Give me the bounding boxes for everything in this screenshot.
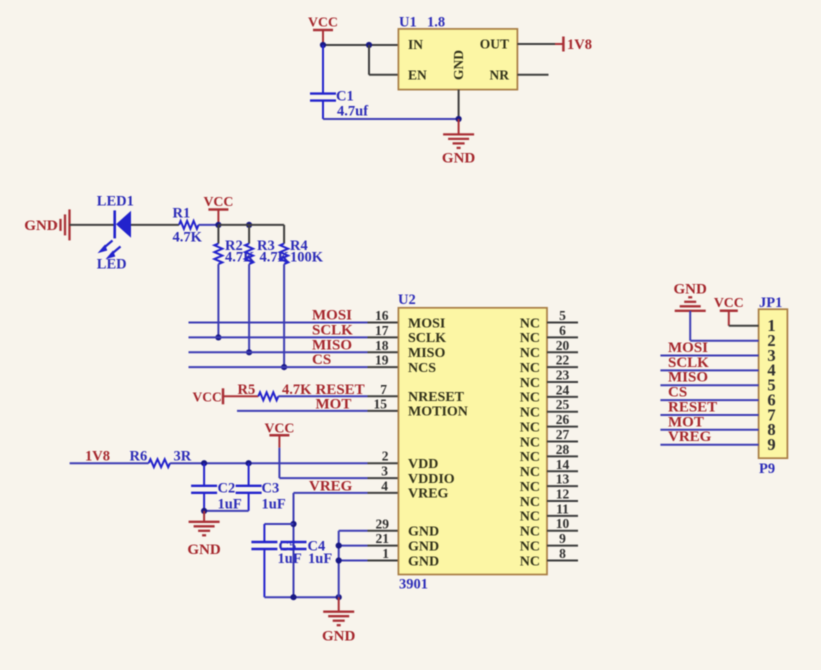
- wire net MISO: [189, 351, 368, 353]
- node junction pin21: [336, 543, 342, 549]
- svg-text:13: 13: [556, 472, 570, 487]
- power symbol VCC (top): [308, 15, 338, 46]
- svg-text:MOSI: MOSI: [312, 308, 352, 324]
- capacitor C4: [281, 539, 333, 568]
- power symbol VCC (JP1): [714, 295, 744, 326]
- svg-text:1uF: 1uF: [278, 551, 302, 567]
- svg-text:C2: C2: [218, 481, 236, 497]
- connector JP1 box: [759, 295, 788, 477]
- pin number 1: [382, 546, 389, 561]
- svg-text:JP1: JP1: [759, 295, 782, 311]
- svg-text:17: 17: [375, 323, 389, 338]
- pin number 3: [381, 464, 388, 479]
- svg-text:MOT: MOT: [668, 414, 704, 430]
- wire 1V8 to R6: [70, 462, 149, 464]
- resistor R6: [130, 448, 192, 467]
- wire GND pin 29: [339, 530, 368, 532]
- wire C3 to C2 bottom: [204, 510, 249, 512]
- node junction R4/CS: [281, 364, 287, 370]
- svg-text:R1: R1: [173, 206, 191, 222]
- wire R3 to MISO: [248, 264, 250, 352]
- svg-text:RESET: RESET: [668, 400, 717, 416]
- pin 21 stub: [368, 545, 399, 547]
- svg-text:MISO: MISO: [408, 346, 445, 361]
- right NC pin stubs: [547, 323, 578, 561]
- capacitor C2: [191, 463, 242, 512]
- resistor R4: [280, 225, 324, 266]
- node junction IN/EN branch: [366, 42, 372, 48]
- ground symbol (JP1, inverted): [674, 282, 708, 311]
- svg-text:1uF: 1uF: [308, 551, 332, 567]
- IC U2 3901: [398, 292, 547, 593]
- svg-text:26: 26: [556, 412, 570, 427]
- node junction C2: [201, 460, 207, 466]
- svg-text:NC: NC: [520, 450, 540, 465]
- port 1V8 (top): [563, 37, 592, 53]
- svg-text:28: 28: [556, 442, 570, 457]
- svg-text:VCC: VCC: [264, 421, 294, 436]
- svg-text:VCC: VCC: [714, 295, 744, 310]
- svg-text:11: 11: [556, 501, 569, 516]
- svg-text:2: 2: [382, 449, 389, 464]
- svg-text:NCS: NCS: [408, 361, 436, 376]
- capacitor C5: [251, 539, 301, 598]
- pin number 15: [374, 397, 388, 412]
- wire net MOT: [237, 410, 368, 412]
- net label JP1 VREG: [668, 429, 712, 445]
- wire GND column: [338, 531, 340, 597]
- svg-text:LED: LED: [97, 256, 127, 272]
- node junction pin1: [336, 557, 342, 563]
- wire JP1 net RESET: [660, 414, 758, 416]
- wire net SCLK: [189, 336, 368, 338]
- node junction R2 top: [215, 222, 221, 228]
- net label JP1 RESET: [668, 400, 717, 416]
- node junction R3 top: [246, 222, 252, 228]
- svg-text:21: 21: [376, 531, 390, 546]
- wire JP1 net SCLK: [660, 369, 758, 371]
- wire GND to JP1 pin2: [690, 311, 758, 341]
- svg-text:NC: NC: [520, 331, 540, 346]
- resistor R2: [214, 225, 255, 266]
- svg-text:VCC: VCC: [203, 194, 233, 209]
- svg-text:GND: GND: [442, 151, 476, 167]
- svg-text:C1: C1: [336, 89, 354, 105]
- node junction R3/MISO: [246, 349, 252, 355]
- pin 19 stub: [368, 366, 399, 368]
- svg-text:MOSI: MOSI: [408, 316, 445, 331]
- node junction gnd rail: [336, 594, 342, 600]
- pin number 17: [375, 323, 389, 338]
- resistor R3: [245, 225, 290, 266]
- svg-text:1uF: 1uF: [262, 497, 286, 513]
- wire GND pin 1: [339, 560, 368, 562]
- node junction C4 bottom: [290, 594, 296, 600]
- svg-text:OUT: OUT: [480, 37, 509, 52]
- svg-text:NR: NR: [490, 68, 510, 83]
- net label MOT: [316, 397, 352, 413]
- svg-text:GND: GND: [451, 50, 466, 80]
- pin 15 stub: [368, 410, 399, 412]
- svg-text:CS: CS: [668, 385, 687, 401]
- wire pull-up rail: [218, 224, 284, 226]
- svg-text:SCLK: SCLK: [312, 322, 353, 338]
- svg-text:7: 7: [380, 382, 387, 397]
- svg-text:U2: U2: [398, 292, 416, 308]
- svg-text:NC: NC: [520, 406, 540, 421]
- port VCC (R5): [193, 388, 224, 404]
- pin number 7: [380, 382, 387, 397]
- node junction C2 gnd: [201, 508, 207, 514]
- ground symbol (U2): [322, 597, 356, 644]
- svg-text:VCC: VCC: [193, 390, 222, 405]
- net label JP1 SCLK: [668, 355, 709, 371]
- svg-text:NC: NC: [520, 510, 540, 525]
- svg-text:4: 4: [381, 478, 388, 493]
- svg-text:SCLK: SCLK: [408, 331, 446, 346]
- wire VREG pin: [294, 493, 368, 597]
- wire R2 to SCLK: [217, 264, 219, 337]
- wire VCC to R5: [223, 395, 258, 397]
- ground symbol (C2): [187, 511, 221, 558]
- wire LED to R1: [131, 224, 179, 226]
- svg-text:NC: NC: [520, 420, 540, 435]
- pin 16 stub: [368, 322, 399, 324]
- svg-text:C3: C3: [262, 481, 280, 497]
- node junction R2/SCLK: [215, 334, 221, 340]
- svg-text:NC: NC: [520, 391, 540, 406]
- power symbol VCC (pull-ups): [203, 194, 233, 225]
- wire R4 to CS: [283, 264, 285, 367]
- pin number 18: [375, 338, 389, 353]
- resistor R5: [238, 382, 313, 400]
- pin 29 stub: [368, 530, 399, 532]
- pin 1 stub: [368, 560, 399, 562]
- wire U1 GND pin: [458, 90, 460, 119]
- svg-text:VREG: VREG: [408, 487, 449, 502]
- svg-text:R5: R5: [238, 382, 256, 398]
- svg-text:GND: GND: [674, 282, 708, 298]
- svg-text:NC: NC: [520, 376, 540, 391]
- svg-text:GND: GND: [322, 629, 356, 645]
- svg-text:1V8: 1V8: [85, 448, 110, 464]
- wire U1 NR stub: [517, 74, 548, 76]
- svg-text:1: 1: [382, 546, 389, 561]
- svg-text:NC: NC: [520, 495, 540, 510]
- op-amp U1 regulator box: [398, 15, 517, 90]
- svg-text:15: 15: [374, 397, 388, 412]
- svg-text:IN: IN: [408, 37, 423, 52]
- svg-text:27: 27: [556, 427, 570, 442]
- pin number 2: [382, 449, 389, 464]
- svg-text:3901: 3901: [399, 577, 428, 593]
- svg-text:MISO: MISO: [668, 370, 708, 386]
- wire VCC to U1 IN: [323, 44, 398, 46]
- svg-text:19: 19: [375, 353, 389, 368]
- svg-text:29: 29: [376, 516, 390, 531]
- svg-text:MISO: MISO: [312, 337, 352, 353]
- svg-text:14: 14: [556, 457, 570, 472]
- pin 4 stub: [368, 492, 399, 494]
- right pin numbers: [556, 308, 570, 561]
- svg-text:1V8: 1V8: [567, 37, 592, 53]
- svg-text:9: 9: [559, 531, 566, 546]
- svg-text:CS: CS: [312, 352, 331, 368]
- svg-text:16: 16: [375, 308, 389, 323]
- pin number 16: [375, 308, 389, 323]
- svg-text:3: 3: [381, 464, 388, 479]
- wire R1 to VCC node: [199, 224, 219, 226]
- svg-text:VCC: VCC: [308, 15, 338, 30]
- svg-text:VDDIO: VDDIO: [408, 472, 455, 487]
- pin 18 stub: [368, 351, 399, 353]
- wire JP1 net MOT: [660, 429, 758, 431]
- wire JP1 net MOSI: [660, 355, 758, 357]
- svg-text:SCLK: SCLK: [668, 355, 709, 371]
- svg-text:NC: NC: [520, 316, 540, 331]
- node junction GND net: [456, 116, 462, 122]
- node junction C3: [246, 460, 252, 466]
- pin number 29: [376, 516, 390, 531]
- svg-text:20: 20: [556, 338, 570, 353]
- wire R5 to NRESET: [278, 395, 367, 397]
- svg-text:VREG: VREG: [668, 429, 712, 445]
- power symbol VCC (VDDIO): [264, 421, 294, 448]
- svg-text:R6: R6: [130, 448, 148, 464]
- net label JP1 MOT: [668, 414, 704, 430]
- svg-text:6: 6: [559, 323, 566, 338]
- svg-text:LED1: LED1: [97, 193, 134, 209]
- svg-text:NC: NC: [520, 346, 540, 361]
- net label 1V8 (VDD rail): [85, 448, 110, 464]
- net label RESET: [316, 382, 365, 398]
- svg-text:4.7uf: 4.7uf: [337, 104, 368, 120]
- ground symbol (LED, rotated): [24, 209, 69, 240]
- svg-text:NC: NC: [520, 554, 540, 569]
- wire GND pin 21: [339, 545, 368, 547]
- svg-text:10: 10: [556, 516, 570, 531]
- wire VCC to JP1 pin1: [729, 325, 759, 327]
- svg-text:NC: NC: [520, 539, 540, 554]
- wire R6 to VDD pin: [170, 462, 368, 464]
- svg-text:MOT: MOT: [316, 397, 352, 413]
- ground symbol (U1): [442, 119, 476, 167]
- svg-text:9: 9: [767, 435, 775, 454]
- svg-text:22: 22: [556, 353, 570, 368]
- capacitor C1: [310, 45, 368, 120]
- net label VREG: [309, 479, 353, 495]
- svg-text:25: 25: [556, 397, 570, 412]
- svg-text:NC: NC: [520, 361, 540, 376]
- svg-text:P9: P9: [759, 461, 775, 477]
- wire JP1 net VREG: [660, 444, 758, 446]
- wire C1 to GND node: [323, 118, 459, 120]
- wire VCC to VDDIO: [279, 448, 367, 478]
- wire to C5: [264, 524, 293, 542]
- svg-text:GND: GND: [187, 542, 221, 558]
- svg-text:NRESET: NRESET: [408, 390, 465, 405]
- svg-text:NC: NC: [520, 525, 540, 540]
- net label JP1 CS: [668, 385, 687, 401]
- net label JP1 MISO: [668, 370, 708, 386]
- pin number 21: [376, 531, 390, 546]
- svg-text:NC: NC: [520, 465, 540, 480]
- svg-text:GND: GND: [408, 554, 439, 569]
- wire JP1 net MISO: [660, 384, 758, 386]
- svg-text:NC: NC: [520, 480, 540, 495]
- svg-text:3R: 3R: [174, 448, 192, 464]
- node junction at VCC/C1: [320, 42, 326, 48]
- svg-text:4.7K: 4.7K: [173, 230, 203, 246]
- svg-text:1.8: 1.8: [427, 15, 445, 31]
- pin 7 stub: [368, 395, 399, 397]
- svg-text:24: 24: [556, 382, 570, 397]
- svg-text:VDD: VDD: [408, 457, 438, 472]
- wire bottom rail: [264, 596, 338, 598]
- svg-text:MOSI: MOSI: [668, 340, 708, 356]
- net label JP1 MOSI: [668, 340, 708, 356]
- pin number 4: [381, 478, 388, 493]
- svg-text:U1: U1: [399, 15, 417, 31]
- svg-text:GND: GND: [408, 525, 439, 540]
- wire net MOSI: [189, 322, 368, 324]
- svg-text:MOTION: MOTION: [408, 405, 468, 420]
- wire U1 OUT to 1V8: [517, 43, 563, 45]
- pin 2 stub: [368, 462, 399, 464]
- net label SCLK: [312, 322, 353, 338]
- capacitor C3: [236, 463, 286, 512]
- node junction VREG/C4: [290, 521, 296, 527]
- resistor R1: [173, 206, 203, 246]
- svg-text:8: 8: [559, 546, 566, 561]
- svg-text:5: 5: [559, 308, 566, 323]
- svg-text:NC: NC: [520, 435, 540, 450]
- svg-text:EN: EN: [408, 68, 427, 83]
- wire JP1 net CS: [660, 399, 758, 401]
- wire EN branch: [369, 45, 398, 75]
- pin number 19: [375, 353, 389, 368]
- svg-text:GND: GND: [24, 218, 58, 234]
- svg-text:12: 12: [556, 487, 570, 502]
- net label MISO: [312, 337, 352, 353]
- svg-text:100K: 100K: [290, 250, 324, 266]
- svg-text:23: 23: [556, 368, 570, 383]
- net label MOSI: [312, 308, 352, 324]
- pin 3 stub: [368, 477, 399, 479]
- svg-text:GND: GND: [408, 539, 439, 554]
- net label CS: [312, 352, 331, 368]
- pin 17 stub: [368, 336, 399, 338]
- wire net CS: [189, 366, 368, 368]
- LED D1 LED1: [97, 193, 134, 272]
- svg-text:18: 18: [375, 338, 389, 353]
- wire GND to LED: [70, 224, 115, 226]
